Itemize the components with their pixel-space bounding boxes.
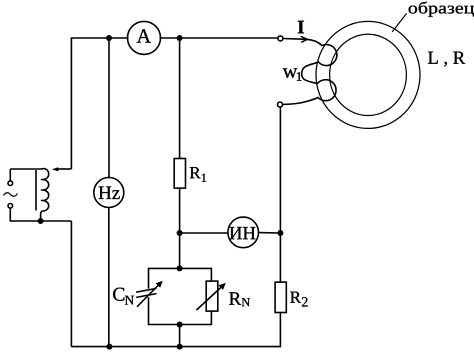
resistor RN <box>206 281 218 311</box>
junction: transformer bottom tap <box>38 218 44 224</box>
wire: top rail from ammeter to top terminal <box>160 37 279 39</box>
junction: bridge branch / bottom rail <box>177 344 183 350</box>
node: top terminal (open circle) <box>278 36 283 41</box>
wire: top rail from left corner to ammeter <box>71 38 128 169</box>
wire: right vertical from bottom terminal to R2 <box>279 107 281 282</box>
junction: bridge bottom node <box>177 322 183 328</box>
arrow: current direction I <box>301 36 308 42</box>
node: AC terminal upper (open circle) <box>8 181 13 186</box>
junction: Hz branch / bottom rail <box>106 344 112 350</box>
wire: variac tap lead with arrow <box>57 168 71 170</box>
arrow: CN variable <box>137 281 163 307</box>
ammeter A <box>128 21 161 54</box>
junction: bridge top node <box>177 265 183 271</box>
wire: AC source stub upper <box>9 169 11 181</box>
label образец pointer line <box>392 14 406 32</box>
label образец <box>409 2 474 17</box>
label R1 <box>190 167 201 178</box>
wire: bridge bottom node to bottom rail <box>179 325 181 347</box>
junction: top rail / R1 branch <box>177 35 183 41</box>
wire: null-indicator left lead <box>180 232 228 234</box>
frequency meter Hz <box>94 178 124 208</box>
transformer core line <box>35 170 37 211</box>
sample toroid outer circle <box>316 21 420 128</box>
wire: R1 branch from top rail to R1 <box>179 38 181 159</box>
wire: R1 to bridge top node <box>179 188 181 268</box>
null indicator ИН <box>228 217 259 248</box>
label L, R <box>428 52 465 67</box>
arrow: variac tap <box>52 167 59 171</box>
junction: top rail / Hz branch <box>106 35 112 41</box>
transformer T1 (variac) winding <box>10 169 48 221</box>
arrow: RN variable <box>197 283 226 310</box>
label RN <box>229 292 241 304</box>
wire: Hz branch lower <box>108 208 110 347</box>
node: AC terminal lower (open circle) <box>8 204 13 209</box>
capacitor CN plate 2 <box>136 294 156 298</box>
wire: R2 to bottom rail corner <box>71 313 280 347</box>
capacitor CN plate 1 <box>136 288 156 292</box>
label R2 <box>290 292 301 303</box>
wire: AC source stub lower to bottom node <box>10 208 71 221</box>
wire: winding w1 around sample toroid <box>283 39 337 105</box>
wire: Hz branch upper <box>108 38 110 178</box>
sample toroid inner circle <box>330 34 407 115</box>
resistor R1 <box>174 159 185 189</box>
junction: right vertical / null-indicator wire <box>277 230 283 236</box>
wire: null-indicator right lead <box>259 232 281 234</box>
junction: R1 branch / null-indicator wire <box>177 230 183 236</box>
wire: CN/RN box outline <box>149 268 212 324</box>
label CN <box>113 288 124 301</box>
label ~ (AC source) <box>4 193 18 197</box>
node: bottom terminal (open circle) <box>278 102 283 107</box>
wire: left return down to bottom rail <box>70 221 72 347</box>
resistor R2 <box>275 282 286 312</box>
label I <box>298 21 304 34</box>
label w1 <box>283 68 298 78</box>
